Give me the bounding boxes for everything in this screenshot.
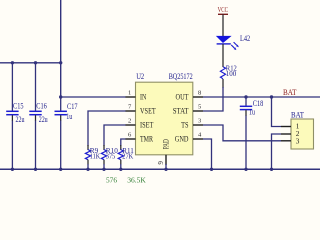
svg-text:1u: 1u xyxy=(249,107,255,116)
wire: VSET net from pin 7 to R9 xyxy=(88,111,126,146)
wire: IN pin wire y=97 xyxy=(61,96,126,98)
svg-text:IN: IN xyxy=(140,93,147,102)
svg-text:STAT: STAT xyxy=(173,107,189,116)
connector pin 1 stub xyxy=(281,126,291,128)
capacitor C16 xyxy=(29,63,41,170)
wire: TS net from pin 3 to BAT pin 3 xyxy=(203,125,281,141)
pin 6 stub TMR xyxy=(126,138,136,140)
wire: PAD to ground rail xyxy=(165,164,167,169)
junction dot rail R9 xyxy=(86,168,89,171)
pin 1 stub IN xyxy=(126,96,136,98)
capacitor C15 xyxy=(6,63,18,170)
svg-text:C15: C15 xyxy=(13,102,24,111)
svg-text:9: 9 xyxy=(157,161,165,165)
junction dot at (12.4,62.8) xyxy=(11,61,14,64)
resistor R11 xyxy=(118,145,123,169)
resistor R9 xyxy=(85,145,90,169)
svg-text:TS: TS xyxy=(181,121,188,130)
svg-text:2: 2 xyxy=(128,118,131,125)
resistor R10 xyxy=(101,145,106,169)
wire: ISET net from pin 2 to R10 xyxy=(104,125,126,146)
svg-text:L42: L42 xyxy=(240,34,250,43)
svg-text:C17: C17 xyxy=(67,102,78,111)
svg-text:C16: C16 xyxy=(36,102,47,111)
svg-text:VSET: VSET xyxy=(140,107,156,116)
connector pin 2 stub xyxy=(281,133,291,135)
svg-text:576: 576 xyxy=(106,175,117,184)
junction dot at (35.5,62.8) xyxy=(34,61,37,64)
pin 8 stub OUT xyxy=(193,96,203,98)
svg-text:TMR: TMR xyxy=(140,135,154,144)
LED L42 xyxy=(217,36,239,50)
svg-text:1: 1 xyxy=(128,90,131,97)
svg-text:100: 100 xyxy=(226,69,237,78)
wire: R12 down to STAT pin 5 xyxy=(203,87,223,111)
svg-text:BAT: BAT xyxy=(291,111,304,120)
power symbol VCC xyxy=(218,14,228,36)
svg-text:PAD: PAD xyxy=(162,139,171,149)
svg-text:U2: U2 xyxy=(136,72,144,81)
wire: horizontal branch y=62.8 to left edge xyxy=(0,62,61,64)
svg-text:375: 375 xyxy=(106,152,116,161)
junction dot rail C17 xyxy=(59,168,62,171)
wire: connector pin 2 down to ground rail xyxy=(272,134,282,169)
connector pin 3 stub xyxy=(281,140,291,142)
wire: OUT / BAT net y=97 xyxy=(203,96,320,98)
wire: GND net from pin 4 down to rail xyxy=(203,139,212,169)
connector BAT body xyxy=(291,119,314,149)
pin 7 stub VSET xyxy=(126,110,136,112)
pin 4 stub GND xyxy=(193,138,203,140)
wire: main vertical input net at x=60.7 xyxy=(60,0,62,97)
junction dot rail R11 xyxy=(119,168,122,171)
svg-text:GND: GND xyxy=(175,135,189,144)
pin 2 stub ISET xyxy=(126,124,136,126)
wire/lead: LED cathode down to R12 xyxy=(222,44,224,67)
svg-text:BQ25172: BQ25172 xyxy=(169,72,193,81)
svg-text:VCC: VCC xyxy=(218,5,228,14)
svg-text:36.5K: 36.5K xyxy=(127,175,146,184)
junction dot rail C18 xyxy=(244,168,247,171)
wire: BAT+ riser from BAT net to connector pin 1 xyxy=(272,97,282,127)
junction dot rail PAD xyxy=(164,168,167,171)
svg-text:ISET: ISET xyxy=(140,121,153,130)
junction dot rail C16 xyxy=(34,168,37,171)
svg-text:1u: 1u xyxy=(66,112,72,121)
junction dot rail BAT pin 2 xyxy=(270,168,273,171)
wire: ground rail y=169.3 xyxy=(0,168,320,170)
junction dot at (60.7,62.8) xyxy=(59,61,62,64)
pin 9 stub PAD xyxy=(165,155,167,165)
svg-text:27K: 27K xyxy=(122,152,134,161)
svg-text:22u: 22u xyxy=(16,115,25,124)
svg-text:3: 3 xyxy=(296,136,300,145)
svg-text:22u: 22u xyxy=(39,115,48,124)
pin 3 stub TS xyxy=(193,124,203,126)
junction dot at (271.5,97) xyxy=(270,95,273,98)
junction dot at (60.7,97) xyxy=(59,95,62,98)
capacitor C17 xyxy=(55,97,67,169)
IC U2 BQ25172 body xyxy=(136,82,193,155)
junction dot rail C15 xyxy=(11,168,14,171)
wire: TMR net from pin 6 to R11 xyxy=(121,139,126,146)
junction dot rail GND pin xyxy=(210,168,213,171)
resistor R12 xyxy=(220,67,225,88)
svg-text:OUT: OUT xyxy=(176,93,189,102)
svg-text:BAT: BAT xyxy=(283,88,297,97)
junction dot at (246,97) xyxy=(244,95,247,98)
capacitor C18 xyxy=(240,97,252,169)
junction dot rail R10 xyxy=(102,168,105,171)
svg-text:11K: 11K xyxy=(90,152,101,161)
pin 5 stub STAT xyxy=(193,110,203,112)
